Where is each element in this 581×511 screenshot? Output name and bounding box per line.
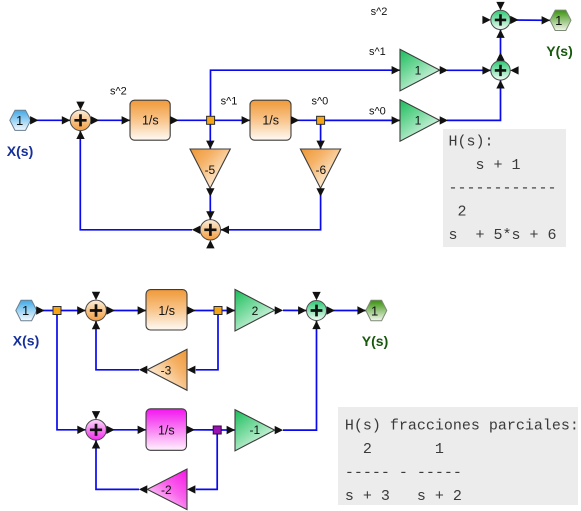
svg-text:H(s):: H(s): xyxy=(449,134,494,151)
wire S6 to output Y2 xyxy=(327,310,366,312)
wire N5 down to gain G8 xyxy=(196,434,217,489)
svg-text:s^1: s^1 xyxy=(369,46,386,58)
svg-text:1/s: 1/s xyxy=(158,423,175,437)
wire S4 feedback to S1 bottom xyxy=(80,131,192,230)
wire I1 to node N1 xyxy=(170,119,207,121)
wire X2 to node N3 xyxy=(37,310,53,312)
svg-text:-1: -1 xyxy=(249,423,260,437)
wire N4 to gain G6 xyxy=(222,310,235,312)
integrator I2 1/s xyxy=(242,100,300,140)
wire G3 to sum S4 xyxy=(209,188,211,220)
node N5 purple xyxy=(213,426,221,434)
wire N3 down to sum S7 xyxy=(57,315,86,430)
output sink block Y2 xyxy=(357,300,386,320)
svg-text:1: 1 xyxy=(16,113,23,128)
integrator I4 1/s magenta xyxy=(138,409,195,451)
svg-text:1: 1 xyxy=(371,303,378,318)
wire G1 to sum S3 xyxy=(447,69,491,71)
svg-text:Y(s): Y(s) xyxy=(362,333,388,349)
wire I4 to node N5 xyxy=(187,429,214,431)
wire S1 to integrator I1 xyxy=(91,119,130,121)
wire N4 down to gain G5 xyxy=(196,315,218,370)
wire G8 feedback to S7 bottom xyxy=(96,440,139,489)
gain G3 value -5 xyxy=(190,141,230,197)
svg-text:X(s): X(s) xyxy=(13,332,39,348)
svg-text:1: 1 xyxy=(22,303,29,318)
svg-text:1: 1 xyxy=(555,13,562,28)
svg-text:------------: ------------ xyxy=(449,180,557,197)
node N2 xyxy=(317,116,325,124)
svg-text:Y(s): Y(s) xyxy=(546,43,572,59)
wire G7 to sum S6 bottom xyxy=(283,321,317,430)
wire G4 to sum S4 right xyxy=(221,188,321,230)
svg-text:-2: -2 xyxy=(161,483,172,497)
input source block X1 xyxy=(10,110,39,130)
svg-text:-3: -3 xyxy=(161,363,172,377)
gain G4 value -6 xyxy=(300,141,340,197)
text box H(s) fracciones parciales xyxy=(338,407,579,505)
integrator I3 1/s xyxy=(138,290,196,330)
node N1 xyxy=(207,116,215,124)
wire N1 to integrator I2 xyxy=(215,119,250,121)
wire N5 to gain G7 xyxy=(221,429,235,431)
svg-text:2: 2 xyxy=(252,304,259,318)
svg-text:2: 2 xyxy=(449,204,467,221)
svg-text:s^2: s^2 xyxy=(110,86,127,98)
summing junction S7 xyxy=(77,411,115,448)
wire N2 to gain G2 xyxy=(325,119,400,121)
wire S5 to integrator I3 xyxy=(107,310,147,312)
node N4 xyxy=(214,307,222,315)
output sink block Y1 xyxy=(542,10,571,30)
svg-text:1/s: 1/s xyxy=(262,114,279,128)
svg-text:s^0: s^0 xyxy=(369,105,386,117)
wire N2 down to gain G4 xyxy=(320,124,322,148)
gain G6 value 2 xyxy=(227,289,284,331)
gain G8 value -2 xyxy=(139,469,196,510)
svg-text:-6: -6 xyxy=(315,163,326,177)
svg-text:X(s): X(s) xyxy=(7,143,33,159)
summing junction S6 xyxy=(298,292,335,329)
node N3 xyxy=(53,307,61,315)
wire N1 down to gain G3 xyxy=(209,124,211,148)
svg-text:s^1: s^1 xyxy=(221,95,238,107)
summing junction S2 xyxy=(482,2,518,38)
svg-text:s + 3 s + 2: s + 3 s + 2 xyxy=(345,488,462,505)
wire S7 to integrator I4 xyxy=(106,429,146,431)
summing junction S5 xyxy=(77,292,115,330)
wire N3 to sum S5 xyxy=(61,310,86,312)
wire I2 to node N2 xyxy=(291,119,317,121)
svg-text:H(s) fracciones parciales:: H(s) fracciones parciales: xyxy=(345,417,579,434)
svg-text:1: 1 xyxy=(415,63,422,77)
summing junction S4 xyxy=(192,211,229,248)
svg-text:1/s: 1/s xyxy=(142,114,159,128)
wire N1 up to gain G1 xyxy=(211,70,401,116)
summing junction S1 xyxy=(62,102,99,139)
summing junction S3 xyxy=(482,52,518,88)
gain G1 value 1 xyxy=(392,49,449,91)
svg-text:1/s: 1/s xyxy=(158,304,175,318)
wire X input to sum S1 xyxy=(31,119,70,121)
text box H(s) transfer function xyxy=(443,129,566,247)
integrator I1 1/s xyxy=(122,100,179,140)
input source block X2 xyxy=(16,300,45,320)
svg-text:----- - -----: ----- - ----- xyxy=(345,464,462,481)
svg-text:2 1: 2 1 xyxy=(345,441,444,458)
svg-text:1: 1 xyxy=(415,114,422,128)
svg-text:s^2: s^2 xyxy=(371,6,388,18)
svg-text:s^0: s^0 xyxy=(312,95,329,107)
wire S2 to output Y xyxy=(510,19,550,21)
wire I3 to node N4 xyxy=(187,310,214,312)
wire G5 feedback to S5 bottom xyxy=(96,321,139,370)
wire S3 to S2 xyxy=(500,29,502,61)
gain G7 value -1 xyxy=(227,410,284,451)
svg-text:s + 1: s + 1 xyxy=(449,157,521,174)
gain G2 value 1 xyxy=(392,100,449,142)
svg-text:s + 5*s + 6: s + 5*s + 6 xyxy=(449,227,557,244)
svg-text:-5: -5 xyxy=(205,163,216,177)
gain G5 value -3 xyxy=(139,349,196,390)
wire G2 to sum S3 bottom xyxy=(447,80,501,120)
wire G6 to sum S6 xyxy=(283,309,307,311)
